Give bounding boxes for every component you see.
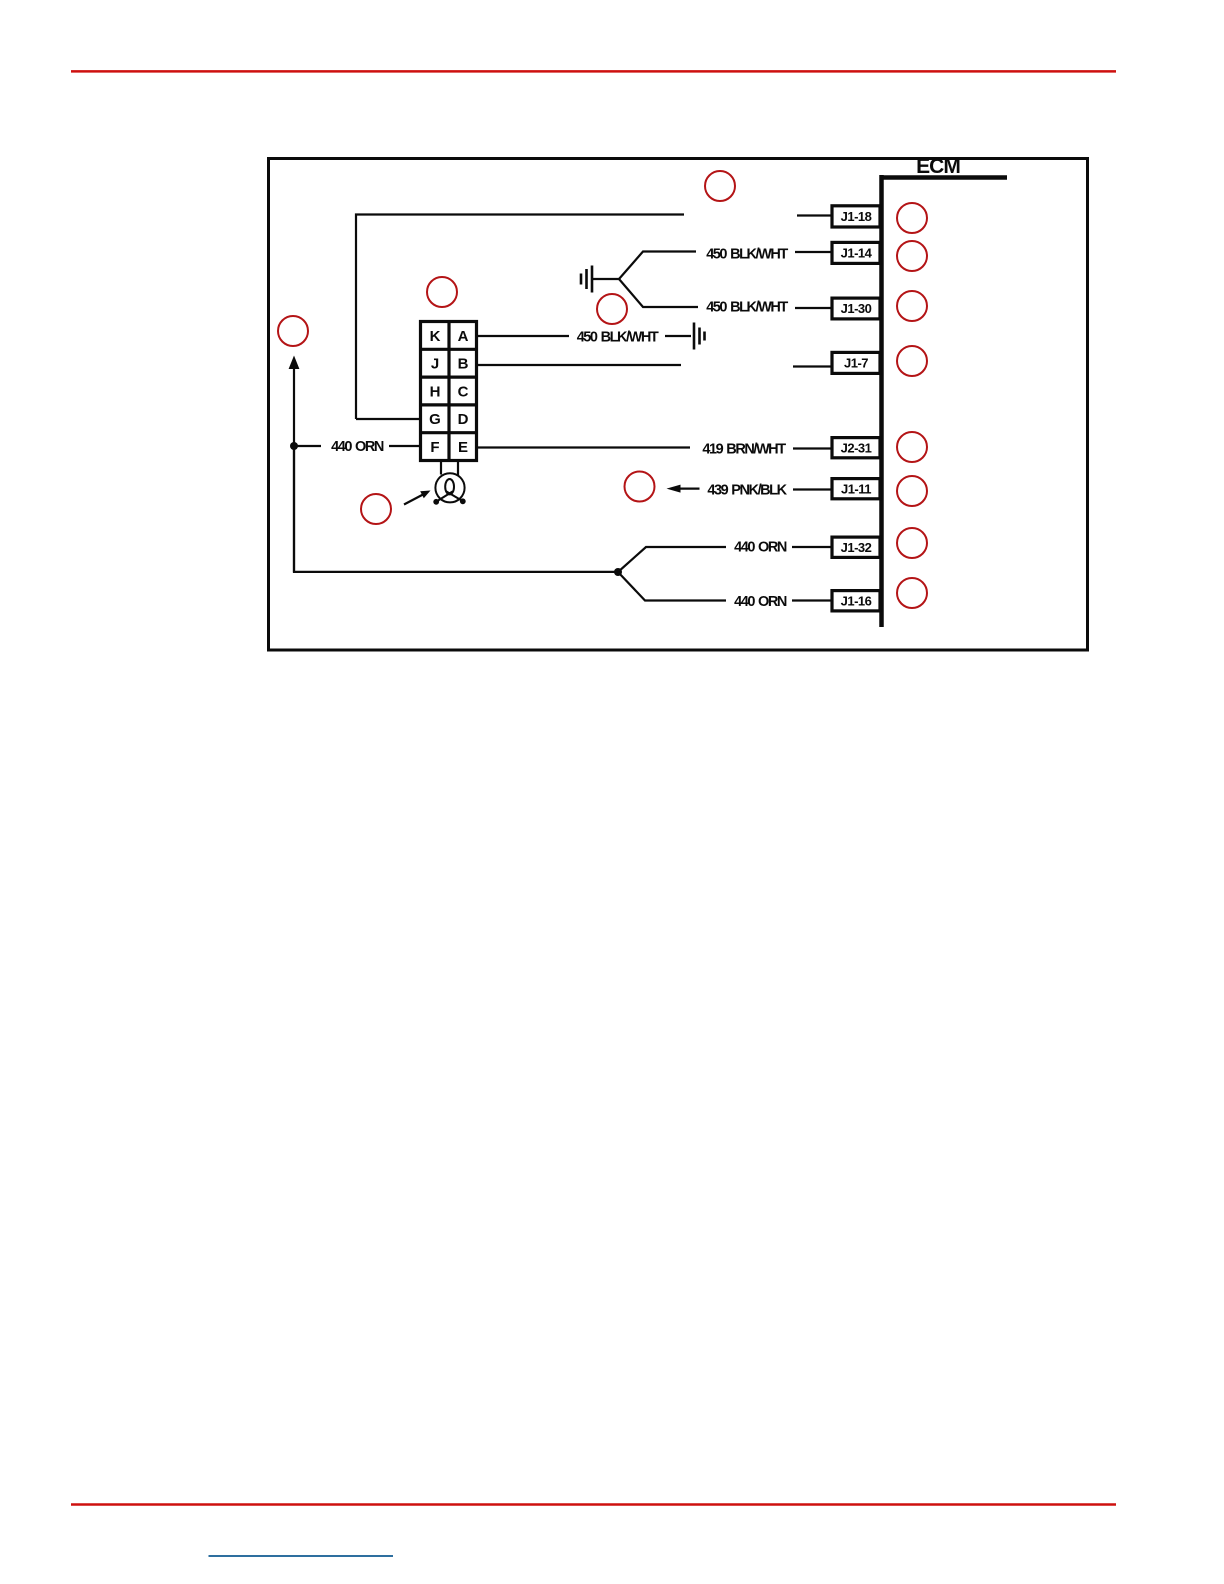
wire pin E to J2-31 (477, 448, 831, 449)
callout circle 7 (897, 203, 927, 233)
top red rule (71, 70, 1116, 73)
callout circle 12 (897, 476, 927, 506)
callout circle 3 (597, 294, 627, 324)
diagram frame (269, 159, 1088, 651)
wire Y branch to J1-32 (618, 547, 831, 572)
connector block P1 (421, 322, 477, 461)
lamp DS1 leads (441, 462, 458, 476)
pin box J1-11 (832, 479, 880, 499)
callout arrow to lamp (404, 491, 431, 505)
wire pin B to J1-7 (477, 365, 831, 367)
lamp DS1 bulb (435, 473, 464, 502)
callout circle 2 (427, 277, 457, 307)
svg-text:J2-31: J2-31 (841, 440, 872, 455)
wire arrow stub to J1-11 (667, 485, 832, 493)
pin box J1-16 (832, 591, 880, 611)
svg-text:450 BLK/WHT: 450 BLK/WHT (706, 300, 788, 316)
svg-text:ECM: ECM (916, 155, 960, 178)
ECM bracket line (880, 175, 1008, 627)
svg-text:450 BLK/WHT: 450 BLK/WHT (706, 247, 788, 263)
wire 440 ORN to pin F (294, 445, 420, 447)
callout circle 5 (361, 494, 391, 524)
svg-text:F: F (430, 439, 439, 456)
svg-text:419 BRN/WHT: 419 BRN/WHT (702, 442, 786, 458)
svg-text:K: K (430, 328, 441, 345)
junction dot at Y split (614, 568, 622, 576)
pin box J2-31 (832, 438, 880, 458)
callout circle 11 (897, 432, 927, 462)
callout circle 6 (625, 472, 655, 502)
ground G1 (left-facing) (581, 266, 592, 293)
svg-text:440 ORN: 440 ORN (734, 540, 787, 556)
lamp DS1 filament loop (445, 479, 454, 494)
svg-text:J: J (431, 356, 439, 373)
callout circle 14 (897, 578, 927, 608)
svg-text:J1-32: J1-32 (841, 540, 872, 555)
callout circle 10 (897, 346, 927, 376)
pin box J1-32 (832, 537, 880, 557)
svg-text:J1-30: J1-30 (841, 301, 872, 316)
ground G2 (right-facing) (694, 323, 705, 350)
svg-text:A: A (458, 328, 469, 345)
svg-text:J1-18: J1-18 (841, 209, 872, 224)
svg-text:B: B (458, 356, 469, 373)
callout circle 1 (705, 171, 735, 201)
pin box J1-7 (832, 352, 880, 373)
callout circle 13 (897, 528, 927, 558)
svg-text:G: G (429, 411, 441, 428)
svg-text:J1-7: J1-7 (844, 356, 868, 371)
wire ground G1 to Y junction (592, 278, 619, 280)
footer link underline (209, 1555, 394, 1557)
lamp DS1 terminal dots (433, 498, 465, 504)
svg-text:E: E (458, 439, 468, 456)
svg-text:440 ORN: 440 ORN (734, 594, 787, 610)
svg-text:440 ORN: 440 ORN (331, 439, 384, 455)
callout circle 4 (278, 316, 308, 346)
wire Y branch to J1-16 (618, 572, 831, 601)
svg-text:C: C (458, 383, 469, 400)
lamp DS1 filament legs (437, 492, 463, 502)
svg-text:H: H (430, 383, 441, 400)
wire pin A to ground G2 (477, 335, 691, 337)
junction dot at 440 ORN tap (290, 442, 298, 450)
wire Y branch to J1-30 (619, 279, 831, 308)
wire top run to J1-18 (356, 215, 831, 420)
pin box J1-30 (832, 298, 880, 319)
svg-text:J1-16: J1-16 (841, 593, 872, 608)
svg-text:D: D (458, 411, 469, 428)
svg-text:439 PNK/BLK: 439 PNK/BLK (707, 483, 787, 499)
wire bottom run (294, 446, 618, 572)
svg-text:450 BLK/WHT: 450 BLK/WHT (577, 330, 659, 346)
pin box J1-14 (832, 242, 880, 263)
pin box J1-18 (832, 206, 880, 227)
wire left riser with up arrow (289, 356, 300, 573)
bottom red rule (71, 1503, 1116, 1506)
callout circle 8 (897, 241, 927, 271)
svg-text:J1-14: J1-14 (841, 246, 873, 261)
svg-text:J1-11: J1-11 (841, 481, 871, 496)
callout circle 9 (897, 291, 927, 321)
wire Y branch to J1-14 (619, 252, 831, 280)
